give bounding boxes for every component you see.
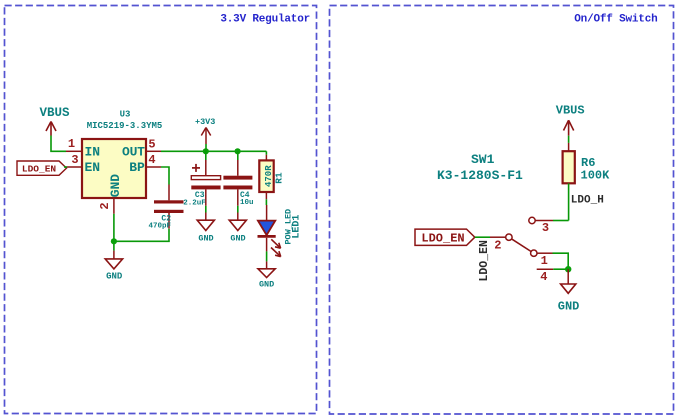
C4 bottom plate <box>223 186 252 190</box>
wire R1 to LED1 <box>265 199 267 205</box>
C2 bottom plate <box>154 210 184 213</box>
C3 plus sign <box>192 167 200 169</box>
svg-text:GND: GND <box>558 300 580 314</box>
SW1 pin 3 <box>529 217 535 223</box>
svg-text:470R: 470R <box>264 165 274 187</box>
ground under U3 <box>105 251 123 282</box>
capacitor C3 (polarized) <box>191 151 220 212</box>
wire C3 bottom <box>205 189 207 205</box>
wire VBUS to R6 <box>568 136 570 143</box>
U3 pin 5 (OUT) <box>146 150 161 152</box>
wire U3 BP to C2 <box>161 167 169 185</box>
svg-text:GND: GND <box>108 174 123 198</box>
svg-text:470pF: 470pF <box>148 222 171 230</box>
C3 top plate (hollow) <box>191 176 220 180</box>
wire VBUS to U3 pin 1 <box>51 136 66 152</box>
U3 pin 3 (EN) <box>67 166 82 168</box>
svg-text:LDO_H: LDO_H <box>571 195 604 207</box>
capacitor C4 <box>223 151 252 212</box>
LED LED1 <box>258 205 281 257</box>
svg-text:4: 4 <box>540 270 547 284</box>
svg-text:100K: 100K <box>581 169 611 183</box>
svg-text:GND: GND <box>259 279 274 289</box>
SW1 pin 1 <box>531 250 537 256</box>
svg-text:GND: GND <box>106 272 123 282</box>
IC U3 body <box>82 139 146 198</box>
U3 pin 4 (BP) <box>146 166 161 168</box>
svg-text:LED1: LED1 <box>292 215 303 239</box>
svg-text:1: 1 <box>541 254 548 268</box>
svg-text:5: 5 <box>148 138 155 152</box>
U3 pin 2 (GND) <box>113 198 115 214</box>
junction at SW1 pin 4 <box>565 266 571 272</box>
section box: On/Off Switch <box>330 6 674 415</box>
svg-text:MIC5219-3.3YM5: MIC5219-3.3YM5 <box>87 121 163 131</box>
wire bus to R1 <box>265 151 267 155</box>
resistor R1 <box>259 155 273 200</box>
ground under SW1 <box>558 269 580 313</box>
C2 top plate <box>154 200 184 203</box>
svg-text:U3: U3 <box>120 110 131 120</box>
wire SW1 pin 4 to junction <box>553 268 568 270</box>
svg-text:SW1: SW1 <box>471 152 495 167</box>
svg-text:GND: GND <box>198 233 213 243</box>
wire SW1 pin 3 to R6 <box>553 220 569 222</box>
svg-text:VBUS: VBUS <box>39 106 70 120</box>
svg-text:LDO_EN: LDO_EN <box>421 232 464 246</box>
LED light arrow 1 <box>271 239 280 248</box>
C4 top plate <box>223 176 252 180</box>
svg-text:4: 4 <box>148 153 155 167</box>
wire SW1 pin 1 to junction <box>553 253 569 269</box>
wire C4 bottom <box>237 189 239 205</box>
svg-text:K3-1280S-F1: K3-1280S-F1 <box>437 168 523 183</box>
SW1 pin 2 (common) <box>490 236 506 238</box>
svg-text:2.2uF: 2.2uF <box>183 199 206 207</box>
svg-text:3: 3 <box>71 153 78 167</box>
global label LDO_EN (right) <box>415 229 475 245</box>
svg-text:3.3V Regulator: 3.3V Regulator <box>220 13 310 25</box>
svg-text:LDO_EN: LDO_EN <box>478 240 491 282</box>
power symbol VBUS (left) <box>46 122 56 136</box>
resistor R6 <box>563 143 575 183</box>
svg-text:2: 2 <box>494 238 501 252</box>
section box: 3.3V Regulator <box>5 6 317 414</box>
wire LED1 to ground <box>266 251 268 261</box>
ground under LED1 <box>258 261 275 289</box>
svg-text:10u: 10u <box>240 199 254 207</box>
svg-text:OUT: OUT <box>122 144 145 159</box>
U3 pin 1 (IN) <box>66 150 82 152</box>
wire C2 to junction <box>114 229 169 242</box>
svg-text:1: 1 <box>68 137 75 151</box>
global label LDO_EN (left) <box>17 161 67 175</box>
SW1 lever <box>512 239 531 252</box>
wire R6 to SW1 pin 3 (net LDO_H) <box>568 183 570 220</box>
svg-text:3: 3 <box>542 221 549 235</box>
junction at +3V3 / C3 <box>203 148 209 154</box>
wire +3V3 stub <box>205 144 207 151</box>
junction at C4 <box>235 148 241 154</box>
svg-text:On/Off Switch: On/Off Switch <box>574 14 657 26</box>
wire U3 GND down <box>113 214 115 251</box>
svg-text:2: 2 <box>98 202 112 209</box>
svg-text:BP: BP <box>129 160 145 175</box>
wire U3 OUT bus <box>161 150 266 152</box>
wire C3 top <box>205 151 207 160</box>
ground under C4 <box>229 213 246 244</box>
ground under C3 <box>197 213 214 244</box>
svg-text:GND: GND <box>230 233 245 243</box>
svg-text:+3V3: +3V3 <box>195 117 215 127</box>
power symbol VBUS (right) <box>564 120 574 136</box>
svg-text:R1: R1 <box>274 172 285 184</box>
power symbol +3V3 <box>201 128 210 145</box>
svg-text:EN: EN <box>85 160 101 175</box>
SW1 pin 4 <box>537 268 554 270</box>
C3 bottom plate <box>191 186 220 190</box>
junction under U3 <box>111 238 117 244</box>
wire C4 top <box>237 151 239 160</box>
svg-text:LDO_EN: LDO_EN <box>22 164 57 175</box>
wire LDO_EN to U3 pin 3 <box>64 166 67 168</box>
wire LDO_EN to SW1 pin 2 <box>475 236 490 238</box>
svg-text:VBUS: VBUS <box>556 104 585 118</box>
LED light arrow 2 <box>271 248 281 257</box>
capacitor C2 <box>154 185 184 229</box>
svg-text:IN: IN <box>85 144 101 159</box>
